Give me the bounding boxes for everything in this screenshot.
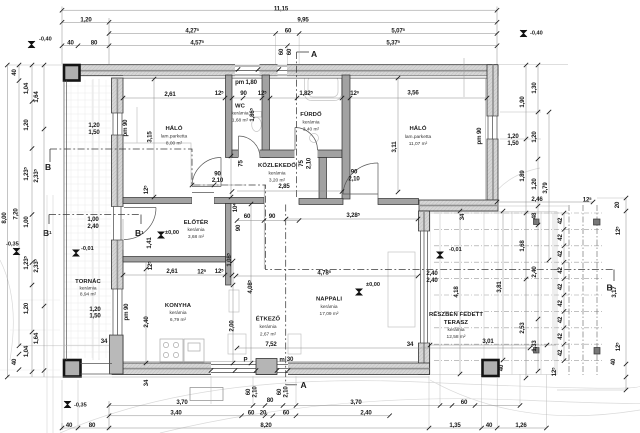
svg-text:lam.parketta: lam.parketta	[161, 134, 188, 140]
svg-text:60: 60	[278, 48, 285, 55]
svg-text:kerámia: kerámia	[268, 171, 285, 177]
svg-text:75: 75	[298, 160, 305, 167]
svg-text:34: 34	[459, 213, 466, 220]
svg-text:1,20: 1,20	[531, 178, 538, 190]
svg-text:KÖZLEKEDŐ: KÖZLEKEDŐ	[258, 162, 296, 169]
svg-text:34: 34	[143, 379, 150, 386]
svg-text:4,18: 4,18	[453, 286, 460, 298]
svg-text:90: 90	[235, 224, 242, 231]
svg-text:60: 60	[244, 213, 251, 220]
svg-text:kerámia: kerámia	[169, 310, 186, 316]
svg-text:kerámia: kerámia	[320, 304, 337, 310]
svg-text:12,58 m²: 12,58 m²	[447, 334, 466, 340]
svg-text:pm 90: pm 90	[122, 119, 129, 137]
svg-text:1,20: 1,20	[23, 119, 30, 131]
svg-text:1,04: 1,04	[23, 345, 30, 357]
svg-text:3,40 m²: 3,40 m²	[303, 127, 320, 133]
svg-text:2,40: 2,40	[426, 270, 438, 277]
svg-text:2,10: 2,10	[252, 386, 259, 398]
svg-text:40: 40	[486, 422, 493, 429]
svg-text:20: 20	[260, 410, 267, 417]
svg-text:1,20: 1,20	[531, 131, 538, 143]
svg-text:TORNÁC: TORNÁC	[75, 278, 101, 285]
svg-text:RÉSZBEN FEDETT: RÉSZBEN FEDETT	[429, 310, 483, 318]
svg-text:17,09 m²: 17,09 m²	[320, 311, 339, 317]
svg-text:1,64: 1,64	[33, 332, 40, 344]
svg-text:34: 34	[407, 341, 414, 348]
svg-text:9,95: 9,95	[297, 16, 309, 23]
svg-text:2,00: 2,00	[229, 320, 236, 332]
svg-text:pm 90: pm 90	[476, 127, 483, 145]
svg-text:2,61: 2,61	[164, 91, 176, 98]
svg-text:42: 42	[557, 250, 564, 257]
svg-text:±0,00: ±0,00	[366, 282, 380, 288]
svg-text:1,64: 1,64	[33, 91, 40, 103]
svg-text:90: 90	[351, 169, 358, 176]
svg-text:KONYHA: KONYHA	[165, 303, 192, 309]
svg-text:40: 40	[67, 40, 74, 47]
svg-text:42: 42	[557, 267, 564, 274]
svg-text:40: 40	[610, 358, 617, 365]
svg-text:FÜRDŐ: FÜRDŐ	[300, 111, 322, 118]
svg-text:7,52: 7,52	[265, 341, 277, 348]
svg-text:3,70: 3,70	[350, 399, 362, 406]
svg-text:2,10: 2,10	[212, 177, 224, 184]
svg-text:60: 60	[286, 48, 293, 55]
svg-text:-0,01: -0,01	[81, 246, 94, 252]
svg-text:1,50: 1,50	[507, 140, 519, 147]
svg-text:1,35: 1,35	[449, 422, 461, 429]
svg-text:pm 90: pm 90	[123, 303, 130, 321]
svg-text:80: 80	[91, 40, 98, 47]
svg-text:3,15: 3,15	[147, 131, 154, 143]
svg-text:2,10: 2,10	[348, 176, 360, 183]
svg-text:1,26: 1,26	[515, 422, 527, 429]
svg-text:2,46: 2,46	[531, 196, 543, 203]
svg-text:HÁLÓ: HÁLÓ	[409, 124, 426, 132]
svg-text:1,68: 1,68	[519, 240, 526, 252]
svg-text:42: 42	[557, 349, 564, 356]
svg-text:-0,35: -0,35	[74, 403, 87, 409]
svg-text:1,00: 1,00	[23, 216, 30, 228]
svg-text:±0,00: ±0,00	[165, 230, 179, 236]
svg-text:8,00 m²: 8,00 m²	[166, 141, 183, 147]
svg-text:pm 1,80: pm 1,80	[235, 79, 257, 86]
svg-text:3,17: 3,17	[611, 286, 618, 298]
svg-text:42: 42	[557, 283, 564, 290]
svg-text:A: A	[311, 49, 317, 59]
svg-text:42: 42	[557, 234, 564, 241]
svg-text:42: 42	[557, 300, 564, 307]
svg-text:kerámia: kerámia	[79, 286, 96, 292]
svg-text:11,07 m²: 11,07 m²	[409, 141, 428, 147]
svg-text:B: B	[45, 162, 51, 172]
svg-text:2,53: 2,53	[519, 322, 526, 334]
svg-text:1,33: 1,33	[531, 340, 538, 352]
svg-text:11,15: 11,15	[274, 5, 289, 12]
svg-text:2,40: 2,40	[531, 266, 538, 278]
svg-text:60: 60	[461, 399, 468, 406]
svg-text:1,20: 1,20	[88, 122, 100, 129]
svg-text:ÉTKEZŐ: ÉTKEZŐ	[256, 315, 281, 323]
svg-text:1,30: 1,30	[531, 82, 538, 94]
svg-text:42: 42	[557, 217, 564, 224]
svg-text:42: 42	[557, 316, 564, 323]
svg-text:WC: WC	[235, 104, 246, 110]
svg-text:-0,01: -0,01	[449, 247, 462, 253]
svg-text:2,85: 2,85	[278, 183, 290, 190]
svg-text:80: 80	[89, 422, 96, 429]
svg-text:2,61: 2,61	[166, 268, 178, 275]
svg-text:34: 34	[101, 338, 108, 345]
svg-text:TERASZ: TERASZ	[444, 320, 468, 326]
svg-text:75: 75	[238, 160, 245, 167]
svg-text:1,20: 1,20	[507, 133, 519, 140]
svg-text:1,41: 1,41	[146, 237, 153, 249]
svg-text:42: 42	[557, 333, 564, 340]
svg-text:kerámia: kerámia	[302, 120, 319, 126]
svg-text:8,94 m²: 8,94 m²	[80, 292, 97, 298]
svg-text:2,40: 2,40	[360, 410, 372, 417]
svg-text:1,20: 1,20	[23, 302, 30, 314]
svg-text:2,10: 2,10	[283, 386, 290, 398]
svg-text:40: 40	[498, 364, 505, 371]
svg-text:2,10: 2,10	[306, 157, 313, 169]
svg-text:3,56: 3,56	[407, 90, 419, 97]
svg-text:40: 40	[66, 422, 73, 429]
svg-text:A: A	[301, 380, 307, 390]
svg-text:1,50: 1,50	[89, 313, 101, 320]
svg-text:NAPPALI: NAPPALI	[316, 297, 342, 303]
svg-text:3,20 m²: 3,20 m²	[269, 178, 286, 184]
svg-text:-0,35: -0,35	[6, 242, 19, 248]
svg-text:3,68 m²: 3,68 m²	[188, 234, 205, 240]
svg-text:kerámia: kerámia	[231, 111, 248, 117]
svg-text:ELŐTÉR: ELŐTÉR	[184, 218, 209, 226]
svg-text:1,89: 1,89	[519, 170, 526, 182]
svg-text:kerámia: kerámia	[447, 327, 464, 333]
svg-text:60: 60	[285, 28, 292, 35]
svg-text:6,79 m²: 6,79 m²	[170, 317, 187, 323]
svg-text:-0,40: -0,40	[39, 37, 52, 43]
svg-text:1,68 m²: 1,68 m²	[232, 118, 249, 124]
svg-text:90: 90	[240, 90, 247, 97]
svg-text:1,50: 1,50	[88, 129, 100, 136]
svg-text:2,40: 2,40	[426, 277, 438, 284]
svg-text:HÁLÓ: HÁLÓ	[165, 124, 182, 132]
svg-text:3,11: 3,11	[391, 141, 398, 153]
svg-text:60: 60	[248, 410, 255, 417]
svg-text:40: 40	[11, 358, 18, 365]
svg-text:3,01: 3,01	[482, 338, 494, 345]
svg-text:-0,40: -0,40	[530, 31, 543, 37]
svg-text:2,40: 2,40	[143, 316, 150, 328]
svg-text:20: 20	[614, 201, 621, 208]
svg-text:3,81: 3,81	[496, 281, 503, 293]
svg-text:1,20: 1,20	[80, 16, 92, 23]
svg-text:P: P	[244, 357, 248, 364]
svg-text:8,20: 8,20	[260, 422, 272, 429]
svg-text:lam.parketta: lam.parketta	[405, 134, 432, 140]
svg-text:48: 48	[531, 212, 538, 219]
svg-text:1,04: 1,04	[23, 82, 30, 94]
svg-text:8,00: 8,00	[1, 212, 8, 224]
svg-text:1,00: 1,00	[87, 216, 99, 223]
svg-text:2,40: 2,40	[87, 223, 99, 230]
svg-text:kerámia: kerámia	[259, 324, 276, 330]
svg-text:30: 30	[287, 356, 294, 363]
svg-text:3,70: 3,70	[176, 399, 188, 406]
svg-text:m: m	[279, 357, 285, 364]
svg-text:90: 90	[269, 213, 276, 220]
svg-text:1,90: 1,90	[519, 96, 526, 108]
svg-text:40: 40	[11, 69, 18, 76]
svg-text:3,40: 3,40	[170, 410, 182, 417]
svg-text:kerámia: kerámia	[187, 227, 204, 233]
svg-text:60: 60	[283, 410, 290, 417]
svg-text:80: 80	[267, 397, 274, 404]
svg-text:2,67 m²: 2,67 m²	[260, 332, 277, 338]
svg-text:3,79: 3,79	[542, 182, 549, 194]
svg-text:7,20: 7,20	[13, 208, 20, 220]
